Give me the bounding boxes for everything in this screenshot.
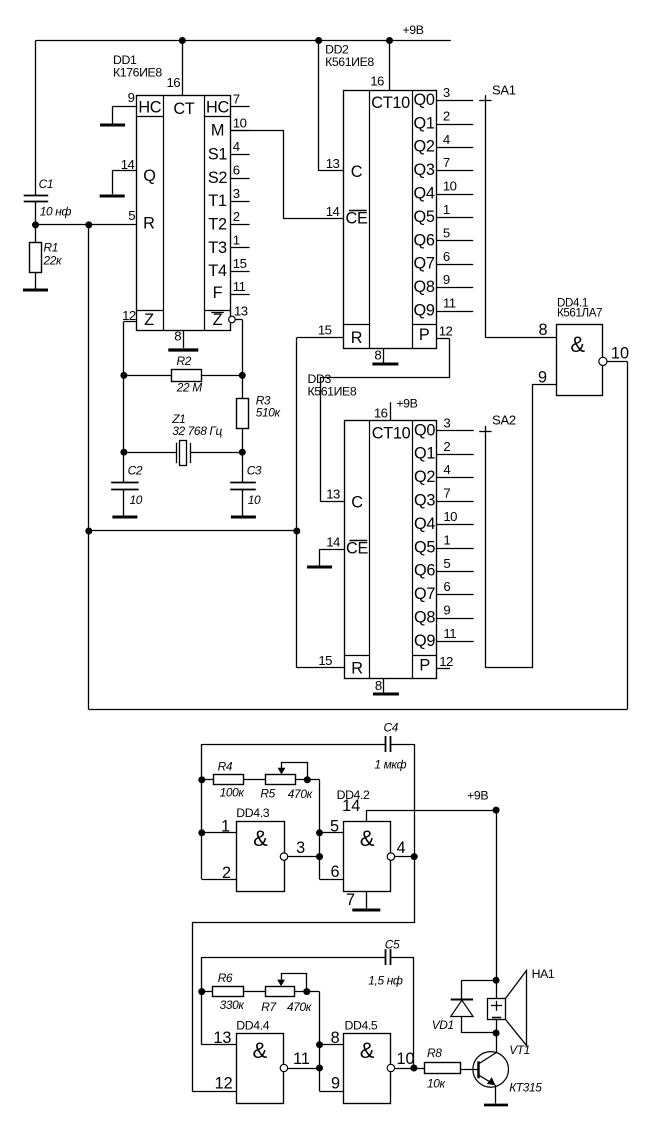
label C3 value 10	[248, 493, 261, 507]
svg-text:Q1: Q1	[414, 114, 435, 132]
svg-text:12: 12	[439, 654, 453, 669]
svg-text:7: 7	[443, 155, 450, 170]
node speaker top junction	[493, 977, 500, 984]
wire DD2 pin8 stub	[374, 348, 383, 363]
label C3	[247, 463, 262, 477]
svg-text:14: 14	[326, 204, 340, 219]
svg-text:Q3: Q3	[414, 161, 435, 179]
label VD1	[432, 1018, 454, 1032]
label C5	[385, 937, 400, 951]
label C2	[128, 463, 143, 477]
ground at DD3 pin8	[373, 693, 399, 696]
label HA1	[532, 967, 555, 981]
pin 8 stub + label	[174, 329, 183, 348]
wire reset bus horizontal	[89, 530, 297, 532]
label DD3 ref	[308, 372, 357, 398]
svg-text:Q0: Q0	[414, 91, 435, 109]
svg-text:470к: 470к	[288, 787, 313, 801]
svg-text:S1: S1	[208, 146, 228, 164]
svg-text:&: &	[253, 826, 268, 851]
switch SA2	[479, 413, 516, 668]
wire DD1 M pin10 to DD2 CE pin14	[230, 131, 343, 219]
label R8 value 10k	[427, 1077, 446, 1091]
capacitor C4	[386, 736, 391, 752]
wire DD1 pin13 down	[242, 320, 244, 399]
wire DD3 pin14 CE to ground	[319, 549, 344, 565]
node crystal row right junction	[239, 449, 246, 456]
wire R1 top lead	[35, 225, 37, 242]
labels DD1 right column M S1 S2 T1 T2 T3 T4 F	[208, 122, 228, 303]
node R2 right junction	[239, 372, 246, 379]
svg-text:T3: T3	[208, 239, 227, 257]
svg-text:Q: Q	[143, 167, 155, 185]
svg-text:1: 1	[443, 532, 450, 547]
label R6 value 330k	[220, 998, 245, 1012]
resistor R6	[213, 987, 244, 997]
diode VD1	[451, 1000, 473, 1034]
svg-text:15: 15	[233, 256, 247, 271]
svg-text:HA1: HA1	[532, 967, 555, 981]
svg-text:C1: C1	[39, 177, 54, 191]
wire R3 to crystal row	[242, 429, 244, 453]
label R6	[218, 971, 233, 985]
wire DD2 P pin12 to DD3 C pin13	[321, 339, 450, 502]
node R5 wiper junction	[304, 776, 311, 783]
wire C5 right vertical	[413, 957, 415, 1068]
capacitor C5	[386, 949, 391, 965]
svg-text:14: 14	[326, 534, 340, 549]
label R7	[261, 1000, 276, 1014]
wire R4 leads	[202, 779, 265, 781]
label DD1 HC left	[138, 99, 161, 117]
label DD2 ref	[325, 43, 374, 70]
wire SA1 to DD4.1 pin8	[485, 321, 556, 339]
label DD1 CT	[173, 100, 194, 118]
svg-text:C: C	[351, 163, 363, 181]
wire reset net left vertical	[88, 225, 90, 710]
svg-text:9: 9	[443, 272, 450, 287]
label DD4.2 ref	[337, 788, 370, 802]
wire to VD1	[462, 980, 497, 999]
node +9V branch junction	[493, 807, 500, 814]
label R5 value 470k	[288, 787, 313, 801]
svg-text:10: 10	[611, 344, 629, 362]
svg-text:15: 15	[318, 323, 332, 338]
node collector junction	[493, 1030, 500, 1037]
svg-text:9: 9	[538, 369, 547, 387]
counter DD3 K561IE8	[318, 415, 473, 678]
wire R5 to mid vertical	[296, 779, 320, 781]
label DD1 Zbar	[211, 311, 223, 329]
wire reset row to DD1 pin5	[36, 224, 137, 226]
svg-text:13: 13	[213, 1029, 231, 1047]
node +9V junction at DD2 pin16	[386, 37, 393, 44]
svg-text:КТ315: КТ315	[509, 1080, 542, 1094]
svg-text:R: R	[351, 329, 362, 347]
capacitor C2	[111, 483, 139, 516]
svg-text:10к: 10к	[427, 1077, 446, 1091]
gate DD4.2	[344, 822, 391, 892]
wire R8 to VT1 base	[461, 1069, 479, 1071]
svg-text:DD4.5: DD4.5	[345, 1018, 378, 1032]
svg-text:R2: R2	[177, 354, 192, 368]
node crystal row left junction	[120, 449, 127, 456]
svg-text:22к: 22к	[43, 254, 63, 268]
wire +9V top rail	[36, 40, 451, 42]
gate DD4.4	[237, 1034, 284, 1104]
label +9V at DD3	[396, 397, 417, 411]
svg-text:3: 3	[296, 839, 305, 857]
svg-text:6: 6	[443, 249, 450, 264]
ground at R1	[23, 289, 48, 292]
node C4 output junction	[411, 853, 418, 860]
svg-text:+9В: +9В	[467, 788, 488, 802]
wire crystal right lead	[190, 452, 242, 454]
node reset bus left	[85, 528, 92, 535]
crystal Z1	[177, 441, 191, 466]
resistor R4	[214, 775, 244, 785]
wire +9V rail down	[496, 810, 498, 980]
svg-text:Q5: Q5	[414, 208, 435, 226]
gate DD4.5	[344, 1034, 391, 1104]
wire DD4.2 pin4 output	[395, 839, 415, 857]
svg-text:C4: C4	[384, 720, 399, 734]
svg-text:5: 5	[443, 556, 450, 571]
svg-text:16: 16	[370, 74, 384, 89]
counter DD1 K176IE8 body	[136, 96, 230, 331]
svg-text:CE: CE	[346, 540, 368, 558]
svg-text:15: 15	[318, 653, 332, 668]
wire VD1 to collector node	[462, 1032, 496, 1034]
svg-text:Q8: Q8	[414, 609, 435, 627]
label C1	[39, 177, 54, 191]
wire VT1 emitter to ground	[495, 1085, 497, 1104]
label DD1 ref	[113, 53, 162, 80]
svg-text:К561ЛА7: К561ЛА7	[557, 307, 602, 320]
label +9V top	[403, 23, 424, 37]
wire R2 left lead	[124, 375, 171, 377]
svg-text:14: 14	[342, 797, 360, 815]
label DD4.5 ref	[345, 1018, 378, 1032]
svg-text:8: 8	[538, 321, 547, 339]
svg-text:Z: Z	[144, 311, 154, 329]
svg-text:+9В: +9В	[403, 23, 424, 37]
svg-text:&: &	[570, 332, 585, 357]
label R3	[256, 394, 271, 408]
gate DD4.3	[237, 822, 285, 892]
svg-text:R4: R4	[218, 759, 233, 773]
svg-text:T1: T1	[208, 192, 227, 210]
label R1 value 22k	[43, 254, 63, 268]
svg-text:Q2: Q2	[414, 138, 435, 156]
DD4.1 output bubble	[599, 357, 607, 365]
wire DD4.5 pin10 output	[395, 1050, 415, 1068]
svg-text:R: R	[351, 659, 362, 677]
svg-text:11: 11	[443, 296, 456, 311]
ground at VT1 emitter	[484, 1104, 508, 1107]
wire +9V to C1	[35, 41, 37, 197]
svg-text:CT: CT	[173, 100, 194, 118]
node +9V junction at DD1 pin16	[179, 37, 186, 44]
label DD4.4 pin13	[213, 1029, 231, 1047]
wire DD3 pin16 stub +9V	[374, 402, 391, 420]
svg-text:M: M	[211, 122, 224, 140]
node +9V junction at DD2 pin13 branch	[315, 37, 322, 44]
ground at DD3 pin14	[307, 566, 332, 569]
svg-text:CT10: CT10	[372, 425, 411, 443]
wire DD4.2 pin5	[320, 818, 344, 836]
svg-text:10 нф: 10 нф	[40, 204, 72, 218]
svg-text:F: F	[213, 284, 223, 302]
VT1 base bar	[477, 1061, 479, 1078]
svg-text:C: C	[351, 494, 363, 512]
svg-text:13: 13	[326, 487, 340, 502]
label +9V gen1	[467, 788, 488, 802]
svg-text:Q5: Q5	[414, 538, 435, 556]
wire gen1 left vertical	[202, 744, 237, 880]
node pin1 junction	[198, 829, 205, 836]
wire crystal left lead	[124, 452, 176, 454]
label DD4.3 pin2	[222, 864, 231, 882]
svg-text:3: 3	[233, 186, 240, 201]
wire R pins vertical DD2-DD3	[296, 338, 298, 668]
node pin8 junction	[316, 1041, 323, 1048]
svg-text:3: 3	[443, 85, 450, 100]
VT1 emitter with arrow	[479, 1075, 495, 1085]
svg-text:7: 7	[233, 92, 240, 107]
wire DD4.1 pin10 output	[607, 344, 629, 362]
svg-text:T4: T4	[208, 262, 227, 280]
svg-text:10: 10	[130, 493, 143, 507]
svg-text:VD1: VD1	[432, 1018, 454, 1032]
pin 9 stub + label	[112, 90, 136, 107]
svg-text:11: 11	[233, 279, 246, 294]
wire DD4.3 pin3 output	[288, 839, 320, 857]
svg-text:R8: R8	[427, 1046, 442, 1060]
label DD4.4 ref	[236, 1018, 269, 1032]
wire gen1 mid vertical	[320, 780, 344, 880]
label DD4.2 pin6	[330, 863, 339, 881]
svg-text:&: &	[360, 1038, 375, 1063]
svg-text:12: 12	[122, 308, 136, 323]
pin 12 stub + label	[122, 308, 136, 323]
svg-text:10: 10	[443, 509, 457, 524]
label VT1 type KT315	[509, 1080, 542, 1094]
wire DD4.4 pin11 output	[288, 1050, 320, 1068]
wire DD3 pin15 R	[297, 667, 344, 669]
node R2 left junction	[120, 372, 127, 379]
svg-text:Q0: Q0	[414, 421, 435, 439]
svg-text:5: 5	[443, 225, 450, 240]
svg-text:2: 2	[222, 864, 231, 882]
pin 16 stub + label	[167, 41, 183, 96]
svg-text:4: 4	[397, 839, 406, 857]
svg-text:Q7: Q7	[414, 585, 435, 603]
svg-text:Z: Z	[213, 311, 223, 329]
svg-text:R6: R6	[218, 971, 233, 985]
label DD4.3 ref	[236, 806, 269, 820]
ground at C3	[231, 516, 256, 519]
svg-text:&: &	[253, 1038, 268, 1063]
svg-text:CT10: CT10	[371, 94, 410, 112]
pin 5 label	[128, 208, 135, 223]
resistor R5 potentiometer	[266, 763, 308, 785]
DD4.3 output bubble	[280, 853, 287, 860]
svg-text:13: 13	[326, 156, 340, 171]
svg-text:К561ИЕ8: К561ИЕ8	[308, 384, 357, 398]
svg-text:8: 8	[331, 1029, 340, 1047]
label R4	[218, 759, 233, 773]
pin 13 inversion bubble + stub	[229, 303, 248, 322]
label Z1	[171, 412, 185, 426]
wire C4 right vertical	[414, 744, 416, 857]
svg-text:HC: HC	[206, 99, 229, 117]
svg-text:5: 5	[128, 208, 135, 223]
svg-text:16: 16	[167, 75, 181, 90]
svg-text:4: 4	[233, 139, 240, 154]
node pin3 junction	[316, 853, 323, 860]
label C4 value 1 uF	[374, 757, 406, 771]
svg-text:C2: C2	[128, 463, 143, 477]
svg-text:Q1: Q1	[414, 445, 435, 463]
svg-text:10: 10	[443, 179, 457, 194]
label DD1 Q	[143, 167, 155, 185]
svg-text:2: 2	[233, 209, 240, 224]
wire SA2 to DD4.1 pin9	[486, 369, 557, 668]
svg-text:32 768 Гц: 32 768 Гц	[172, 424, 222, 438]
svg-text:T2: T2	[208, 216, 227, 234]
ground at DD1 pin9	[100, 107, 125, 126]
node reset net junction	[85, 221, 92, 228]
svg-text:9: 9	[128, 90, 135, 105]
svg-text:Q8: Q8	[414, 278, 435, 296]
ground at DD4.2 pin7	[352, 909, 380, 912]
speaker HA1	[488, 971, 527, 1046]
transistor VT1 body	[473, 1052, 509, 1088]
svg-text:330к: 330к	[220, 998, 245, 1012]
DD4.4 output bubble	[280, 1064, 287, 1071]
wire DD4.2 pin7 to ground	[346, 891, 367, 909]
svg-text:12: 12	[215, 1074, 233, 1092]
pin 14 stub + label	[112, 157, 136, 172]
svg-text:13: 13	[234, 303, 248, 318]
svg-text:4: 4	[443, 462, 450, 477]
speaker plus sign	[491, 1001, 502, 1011]
svg-text:1: 1	[221, 818, 230, 836]
label VT1	[509, 1043, 530, 1057]
svg-text:DD4.3: DD4.3	[236, 806, 269, 820]
wire DD2 pin15 R	[297, 337, 344, 339]
svg-text:К561ИЕ8: К561ИЕ8	[325, 55, 374, 69]
label R7 value 470k	[287, 1000, 312, 1014]
svg-text:6: 6	[443, 579, 450, 594]
label Z1 value 32768 Hz	[172, 424, 222, 438]
svg-text:7: 7	[443, 486, 450, 501]
speaker minus sign	[492, 1017, 501, 1019]
label C2 value 10	[130, 493, 143, 507]
svg-text:DD4.4: DD4.4	[236, 1018, 269, 1032]
svg-text:10: 10	[248, 493, 261, 507]
label R2 value 22 M	[176, 381, 202, 395]
svg-text:VT1: VT1	[509, 1043, 530, 1057]
svg-text:+9В: +9В	[396, 397, 417, 411]
DD4.2 output bubble	[387, 853, 394, 860]
svg-text:R1: R1	[44, 240, 59, 254]
svg-text:HC: HC	[138, 99, 161, 117]
svg-text:Q7: Q7	[414, 255, 435, 273]
svg-text:12: 12	[439, 324, 453, 339]
resistor R7 potentiometer	[266, 974, 307, 997]
wire DD4.3 pin1	[202, 818, 237, 836]
DD4.5 output bubble	[387, 1064, 394, 1071]
svg-text:1 мкф: 1 мкф	[374, 757, 406, 771]
node R4 left junction	[198, 776, 205, 783]
svg-text:9: 9	[443, 603, 450, 618]
svg-text:R5: R5	[260, 786, 275, 800]
svg-text:3: 3	[443, 415, 450, 430]
label R1	[44, 240, 59, 254]
svg-text:P: P	[419, 657, 430, 675]
wire gen2 left vertical	[202, 957, 237, 1045]
label DD1 Z	[144, 311, 154, 329]
label R4 value 100k	[220, 786, 245, 800]
svg-text:1,5 нф: 1,5 нф	[368, 973, 403, 987]
svg-text:R: R	[143, 215, 154, 233]
svg-text:100к: 100к	[220, 786, 245, 800]
svg-text:2: 2	[443, 439, 450, 454]
resistor R3	[237, 399, 249, 429]
wire R1 to ground	[35, 272, 37, 288]
wire DD2 pin13 C from +9V rail	[319, 41, 344, 172]
wire R7 to mid vertical	[295, 991, 320, 993]
label DD1 R	[143, 215, 154, 233]
wire gen2 mid vertical	[320, 992, 344, 1092]
switch SA1	[479, 83, 516, 338]
svg-text:Q6: Q6	[414, 231, 435, 249]
svg-text:8: 8	[375, 678, 382, 693]
svg-text:SA2: SA2	[492, 413, 516, 428]
svg-text:Q2: Q2	[414, 468, 435, 486]
svg-text:К176ИЕ8: К176ИЕ8	[113, 66, 162, 80]
ground at C2	[112, 516, 137, 519]
node R7 wiper junction	[303, 988, 310, 995]
svg-text:CE: CE	[345, 209, 367, 227]
node C1/R1 junction	[32, 221, 39, 228]
svg-text:11: 11	[293, 1050, 310, 1068]
svg-text:14: 14	[121, 157, 135, 172]
svg-text:7: 7	[346, 891, 355, 909]
label DD4.5 pin9	[331, 1074, 340, 1092]
svg-text:470к: 470к	[287, 1000, 312, 1014]
resistor R1	[30, 243, 42, 273]
svg-text:Q4: Q4	[414, 185, 435, 203]
wire DD3 pin8 stub	[375, 678, 384, 693]
wire output to R8	[414, 1068, 425, 1070]
ground at DD1 pin14	[100, 171, 125, 196]
svg-text:10: 10	[233, 115, 247, 130]
wire DD1 pin12 down	[123, 322, 125, 483]
wire R2 right lead	[202, 375, 242, 377]
svg-text:2: 2	[443, 108, 450, 123]
wire DD4.2 pin14 to +9V	[342, 797, 496, 822]
resistor R2	[172, 370, 202, 382]
svg-text:SA1: SA1	[492, 83, 516, 98]
svg-text:Q6: Q6	[414, 562, 435, 580]
svg-text:22 М: 22 М	[176, 381, 202, 395]
svg-text:Q9: Q9	[414, 302, 435, 320]
label DD1 HC right	[206, 99, 229, 117]
svg-text:1: 1	[443, 202, 450, 217]
